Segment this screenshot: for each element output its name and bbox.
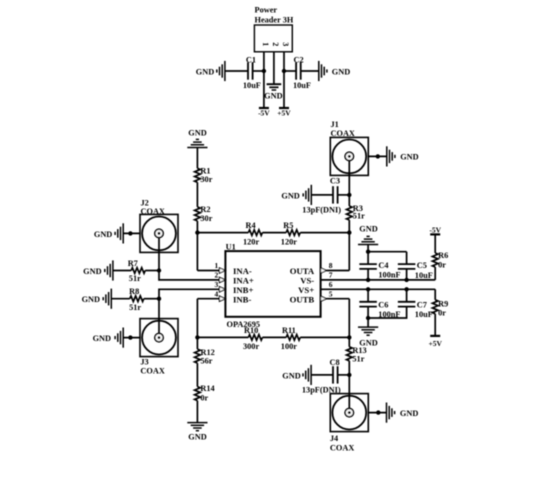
svg-text:0r: 0r <box>200 393 208 402</box>
wire OUTB node down to R13 <box>348 299 350 347</box>
svg-text:10uF: 10uF <box>415 271 433 280</box>
connector J3 COAX <box>140 319 178 376</box>
wire R9 to +5V <box>434 314 436 336</box>
wire C1 to -5V rail <box>253 70 264 72</box>
junction J1/gnd <box>376 154 380 158</box>
ground above C4 <box>358 225 378 245</box>
wire R2 to pin1 row <box>196 221 198 271</box>
resistor R1 <box>195 166 213 184</box>
capacitor C1 <box>243 56 261 90</box>
wire jog to U1 pin 2 <box>159 271 220 280</box>
wire J1 pin down to R3 <box>348 156 350 206</box>
wire pin 5 to OUTB node <box>327 298 350 300</box>
capacitor C6 100nF <box>359 300 400 319</box>
svg-text:C2: C2 <box>294 56 304 65</box>
wire +5V rail <box>283 71 285 108</box>
power tap +5V <box>277 108 291 117</box>
wire gnd to J2 <box>123 232 140 234</box>
wire R4 to R5 <box>262 232 286 234</box>
wire gnd to R8 <box>111 298 130 300</box>
wire C6 bottom to gnd <box>367 307 369 328</box>
svg-text:C3: C3 <box>330 176 340 185</box>
resistor R6 <box>432 251 448 269</box>
svg-text:R14: R14 <box>200 384 214 393</box>
junction C8/J4 net <box>347 373 351 377</box>
op-amp U1 OPA2695 <box>225 243 320 329</box>
svg-text:5: 5 <box>329 289 333 298</box>
resistor R10 <box>243 326 262 351</box>
svg-text:INB-: INB- <box>233 294 251 304</box>
wire gnd to J3 <box>123 337 140 339</box>
svg-text:C6: C6 <box>378 300 388 309</box>
wire C5 top <box>406 252 408 264</box>
svg-text:51r: 51r <box>352 354 364 363</box>
svg-text:6: 6 <box>329 280 333 289</box>
resistor R12 <box>195 348 215 366</box>
resistor R5 <box>281 221 300 246</box>
svg-text:0r: 0r <box>438 309 446 318</box>
junction C6/VS+ <box>366 287 370 291</box>
junction J4/gnd <box>376 410 380 414</box>
resistor R4 <box>243 221 262 246</box>
resistor R14 <box>195 384 215 403</box>
wire J4 to gnd <box>368 412 386 414</box>
svg-text:GND: GND <box>93 334 111 343</box>
resistor R11 <box>281 326 300 351</box>
header pin 3 <box>281 42 290 71</box>
wire R10 row <box>197 336 248 338</box>
junction C3/J1 net <box>347 193 351 197</box>
svg-text:2: 2 <box>214 271 218 280</box>
svg-text:51r: 51r <box>129 303 141 312</box>
svg-text:10uF: 10uF <box>415 310 433 319</box>
wire R5 to R3 junction <box>300 232 349 234</box>
svg-text:OPA2695: OPA2695 <box>227 320 261 329</box>
power header 3H <box>254 5 293 52</box>
junction C6/C7 bottom <box>366 316 370 320</box>
svg-text:C7: C7 <box>417 300 427 309</box>
ground below C6 <box>358 327 378 348</box>
svg-text:30r: 30r <box>200 175 212 184</box>
connector J2 COAX <box>140 199 178 253</box>
svg-text:COAX: COAX <box>141 207 165 216</box>
svg-text:10uF: 10uF <box>243 81 261 90</box>
junction R11/R13 <box>347 335 351 339</box>
wire C7 bottom <box>368 307 407 318</box>
capacitor C3 13pF(DNI) <box>302 176 341 214</box>
ground left of C8 <box>282 365 311 385</box>
wire C2 to gnd <box>301 70 319 72</box>
wire pin 8 to OUTA node <box>327 270 350 272</box>
power tap -5V <box>258 108 270 117</box>
svg-text:R11: R11 <box>282 326 296 335</box>
wire to U1 pin 1 <box>197 270 219 272</box>
U1 pin 5 OUTB <box>290 289 333 304</box>
U1 pin 6 VS+ <box>298 280 333 295</box>
svg-text:Power: Power <box>255 5 278 14</box>
wire pin 6 VS+ rail <box>321 288 436 290</box>
svg-text:R1: R1 <box>200 166 210 175</box>
ground bottom of R14 <box>187 423 207 442</box>
U1 pin 4 INB- <box>214 289 251 304</box>
svg-text:-5V: -5V <box>429 225 441 234</box>
svg-text:1: 1 <box>261 42 270 46</box>
junction J2/R7 <box>157 268 161 272</box>
junction gnd/J3 <box>128 335 132 339</box>
wire R11 to R13 junction <box>300 336 349 338</box>
svg-text:0r: 0r <box>438 261 446 270</box>
junction gnd/C4/C5 <box>366 250 370 254</box>
svg-text:GND: GND <box>188 432 206 441</box>
svg-text:GND: GND <box>282 372 300 381</box>
wire C3 to J1 net <box>338 194 350 196</box>
svg-text:R2: R2 <box>200 205 210 214</box>
ground top of R1 <box>187 129 207 148</box>
svg-text:R8: R8 <box>129 287 139 296</box>
ground left of J3 <box>93 328 124 348</box>
U1 pin 1 INA- <box>214 261 251 276</box>
junction J3/R8 <box>157 297 161 301</box>
wire C4 top to C5 top <box>368 251 407 253</box>
U1 pin 8 OUTA <box>290 261 333 276</box>
svg-text:GND: GND <box>188 129 206 138</box>
svg-text:100nF: 100nF <box>378 271 400 280</box>
wire J2 pin to pin2 jog <box>158 233 160 270</box>
svg-text:COAX: COAX <box>330 444 354 453</box>
svg-text:J3: J3 <box>140 358 148 367</box>
svg-text:GND: GND <box>82 295 100 304</box>
capacitor C4 100nF <box>359 261 400 280</box>
svg-text:U1: U1 <box>226 243 236 252</box>
ground left of R8 <box>82 289 112 309</box>
wire R6 to VS- <box>434 267 436 280</box>
junction gnd/J2 <box>128 231 132 235</box>
wire C8 to J4 net <box>338 374 350 376</box>
svg-text:COAX: COAX <box>331 129 355 138</box>
wire R10 to R11 <box>262 336 286 338</box>
header pin 1 <box>261 42 270 71</box>
svg-text:8: 8 <box>329 261 333 270</box>
svg-text:-5V: -5V <box>258 108 270 117</box>
svg-text:COAX: COAX <box>140 366 164 375</box>
svg-text:51r: 51r <box>353 212 365 221</box>
svg-text:GND: GND <box>400 409 418 418</box>
junction C5/VS- <box>404 278 408 282</box>
ground middle of header <box>264 84 282 100</box>
wire -5V to R6 <box>434 234 436 253</box>
wire J3 pin up <box>158 299 160 338</box>
svg-text:GND: GND <box>359 225 377 234</box>
wire pin4 row down to R12 <box>196 299 198 349</box>
wire VS+ to R9 <box>434 289 436 300</box>
wire pin 7 VS- rail <box>321 279 436 281</box>
svg-text:GND: GND <box>400 153 418 162</box>
svg-text:J4: J4 <box>330 434 338 443</box>
svg-text:R5: R5 <box>283 221 293 230</box>
wire R13 to J4 <box>348 361 350 413</box>
svg-text:R7: R7 <box>128 259 138 268</box>
svg-text:120r: 120r <box>243 238 259 247</box>
ground left of C3 <box>281 185 311 205</box>
wire +5V rail to C2 <box>284 70 296 72</box>
svg-text:GND: GND <box>264 91 282 100</box>
wire VS+ to C7 <box>406 289 408 302</box>
svg-text:C8: C8 <box>330 358 340 367</box>
svg-text:7: 7 <box>329 271 333 280</box>
svg-text:56r: 56r <box>201 357 213 366</box>
wire R12 to R14 <box>196 363 198 387</box>
wire R4 row <box>197 232 248 234</box>
capacitor C5 10uF <box>398 261 433 280</box>
ground right of C2 <box>319 61 350 81</box>
ground left of J2 <box>94 223 123 243</box>
junction C1/-5V <box>262 69 266 73</box>
resistor R13 <box>347 346 367 364</box>
svg-text:10uF: 10uF <box>293 81 311 90</box>
ground left of C1 <box>196 61 225 81</box>
capacitor C8 13pF(DNI) <box>302 358 341 395</box>
junction C7/VS+ <box>404 287 408 291</box>
wire R7 to junction <box>145 270 159 272</box>
wire gnd to C4 top <box>367 245 369 264</box>
svg-text:300r: 300r <box>243 342 259 351</box>
svg-text:30r: 30r <box>200 214 212 223</box>
svg-text:13pF(DNI): 13pF(DNI) <box>302 206 341 215</box>
svg-text:C4: C4 <box>378 261 388 270</box>
U1 pin 3 INB+ <box>214 280 253 295</box>
ground right of J4 <box>387 403 419 423</box>
svg-text:C5: C5 <box>417 261 427 270</box>
wire R3 to R5 junction <box>348 220 350 271</box>
resistor R9 <box>432 300 448 318</box>
svg-text:3: 3 <box>281 42 290 46</box>
wire gnd to R7 <box>113 270 131 272</box>
resistor R7 <box>128 259 145 283</box>
ground right of J1 <box>387 146 419 166</box>
svg-text:3: 3 <box>214 280 218 289</box>
wire -5V rail <box>263 71 265 108</box>
svg-text:GND: GND <box>94 230 112 239</box>
svg-text:J1: J1 <box>331 120 339 129</box>
resistor R8 <box>129 287 144 312</box>
wire R14 to gnd <box>196 401 198 423</box>
connector J4 COAX <box>330 394 368 453</box>
wire VS+ to C6 <box>367 289 369 302</box>
power tap +5V right <box>428 336 442 348</box>
junction R2/R4 <box>195 230 199 234</box>
U1 pin 2 INA+ <box>214 271 253 286</box>
svg-text:C1: C1 <box>246 56 256 65</box>
svg-text:51r: 51r <box>129 274 141 283</box>
svg-text:GND: GND <box>83 267 101 276</box>
capacitor C7 10uF <box>398 300 433 319</box>
svg-text:100r: 100r <box>281 342 297 351</box>
svg-text:1: 1 <box>214 261 218 270</box>
svg-text:R6: R6 <box>438 251 448 260</box>
wire gnd to C8 <box>311 374 333 376</box>
wire to U1 pin 4 <box>197 298 219 300</box>
svg-text:Header 3H: Header 3H <box>255 15 294 24</box>
junction R3/R5/OUTA <box>347 230 351 234</box>
junction C2/+5V <box>282 69 286 73</box>
wire gnd to R1 <box>196 148 198 169</box>
wire jog to U1 pin 3 <box>159 289 220 298</box>
svg-text:GND: GND <box>332 67 350 76</box>
wire gnd to C1 <box>225 70 248 72</box>
capacitor C2 <box>293 56 311 90</box>
wire J1 to gnd <box>368 155 387 157</box>
header pin 2 <box>271 42 280 84</box>
svg-text:120r: 120r <box>281 238 297 247</box>
resistor R3 <box>347 204 366 221</box>
connector J1 COAX <box>330 120 368 175</box>
svg-text:+5V: +5V <box>428 339 442 348</box>
wire gnd to C3 <box>311 194 333 196</box>
svg-text:R4: R4 <box>246 221 256 230</box>
svg-text:+5V: +5V <box>277 108 291 117</box>
svg-text:2: 2 <box>271 42 280 46</box>
junction R10/R12 <box>195 335 199 339</box>
svg-text:R9: R9 <box>438 300 448 309</box>
svg-text:OUTB: OUTB <box>290 294 315 304</box>
U1 pin 7 VS- <box>300 271 333 286</box>
svg-text:GND: GND <box>196 67 214 76</box>
svg-text:GND: GND <box>281 191 299 200</box>
wire C5 bottom to VS- <box>406 269 408 280</box>
ground left of R7 <box>83 260 113 280</box>
junction C4/VS- <box>366 278 370 282</box>
resistor R2 <box>195 205 213 223</box>
wire R1 to R2 <box>196 182 198 207</box>
svg-text:4: 4 <box>214 289 218 298</box>
power tap -5V right <box>429 225 441 234</box>
wire R8 to junction <box>144 298 159 300</box>
wire C4 bottom to VS- <box>367 269 369 280</box>
